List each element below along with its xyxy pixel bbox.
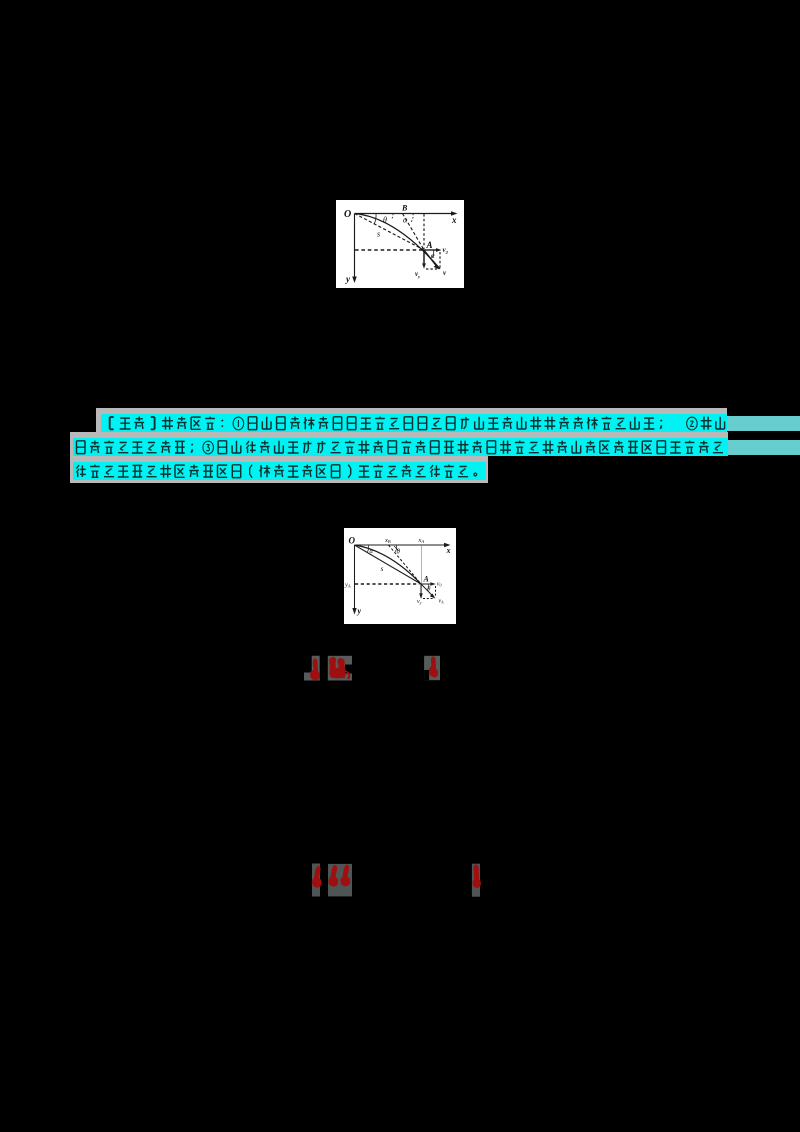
- dashed velocity line xB-A: [389, 545, 422, 584]
- vy arrow at A: [420, 584, 422, 596]
- horizontal dashed y-axis to A: [355, 249, 423, 251]
- cyan highlight line1: [101, 414, 727, 432]
- mark m1 gray patch: [304, 656, 320, 681]
- figure: projectile motion diagram 2: [344, 528, 456, 624]
- thin vertical line at xA: [420, 545, 422, 598]
- dashed arc theta: [392, 214, 393, 219]
- cyan highlight line2: [73, 438, 728, 456]
- v arrow at A: [424, 250, 437, 267]
- arc alpha at A: [432, 250, 434, 258]
- dashed parallelogram sides: [439, 252, 441, 269]
- mark b2 red glyphs: [328, 865, 338, 887]
- y-axis: [354, 214, 356, 281]
- arrowhead vy: [419, 593, 423, 598]
- vy arrow at A: [423, 250, 425, 266]
- mark m2 red glyph: [329, 657, 350, 679]
- arrowhead v0: [430, 582, 435, 586]
- trajectory parabola O to beyond A: [355, 214, 441, 269]
- mark b1 red glyph: [312, 866, 322, 888]
- arrowhead vA: [430, 594, 436, 599]
- arrowhead x-axis: [444, 543, 451, 547]
- dashed line B-A velocity direction: [403, 214, 425, 251]
- arc theta at A: [428, 584, 429, 590]
- pale teal strip line2: [728, 440, 800, 455]
- mark m3 red glyph: [429, 656, 438, 677]
- dashed small horizontal vy tip right: [423, 598, 433, 600]
- x-axis: [355, 213, 456, 215]
- paragraph text (stylized CJK strokes): [0, 0, 800, 500]
- arrowhead y-axis: [352, 608, 356, 615]
- figure: projectile motion diagram 1: [336, 200, 464, 288]
- mark m2 gray patch: [328, 656, 352, 681]
- angle mark theta at B: [395, 545, 397, 552]
- arrowhead vy: [422, 263, 426, 268]
- highlighted paragraph: gray selection bars: [96, 408, 727, 432]
- mark b1 gray patch: [312, 864, 320, 897]
- mark b2 gray patch: [328, 864, 352, 897]
- mark m3 gray patch: [424, 656, 440, 680]
- chord s solid O-A: [355, 545, 422, 584]
- v0 arrow at A: [421, 583, 433, 585]
- dashed arc alpha at B: [411, 214, 413, 223]
- vertical dashed at A: [423, 214, 425, 249]
- pale teal strip line1: [727, 416, 800, 431]
- mark b3 gray patch: [472, 864, 480, 897]
- chord s dashed O-A: [355, 214, 425, 251]
- x-axis: [355, 544, 449, 546]
- dashed horizontal yA to A: [355, 583, 420, 585]
- mark b3 red glyph: [472, 864, 481, 888]
- arrowhead v: [434, 264, 440, 269]
- dashed small vertical v0 tip down: [435, 586, 437, 598]
- y-axis: [354, 545, 356, 612]
- arrowhead vx: [436, 248, 442, 252]
- arrowhead x-axis: [451, 211, 458, 216]
- cyan highlight line3: [73, 462, 486, 480]
- trajectory parabola O-A: [355, 545, 422, 584]
- arc alpha at O: [368, 545, 369, 552]
- mark m1 red glyph: [310, 658, 320, 680]
- arrowhead y-axis: [352, 277, 357, 284]
- vx arrow at A: [424, 249, 438, 251]
- vA arrow at A: [421, 584, 433, 596]
- arc theta at O: [374, 214, 376, 225]
